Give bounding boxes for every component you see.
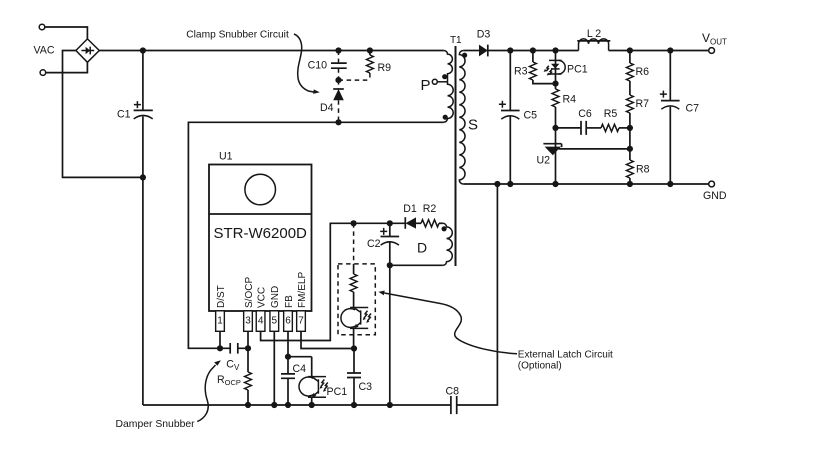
wire pin4 (VCC) [261, 223, 406, 340]
svg-text:R9: R9 [378, 62, 392, 74]
wire (dashed) [339, 73, 370, 80]
svg-text:VAC: VAC [34, 45, 55, 57]
wire (primary ground drop) [142, 177, 144, 405]
node [552, 47, 558, 53]
svg-text:(Optional): (Optional) [518, 360, 562, 371]
resistor R2 [421, 203, 443, 227]
pin 1 box [216, 311, 225, 332]
resistor R9 [367, 51, 392, 75]
phototransistor PC1 [299, 357, 347, 405]
node [387, 262, 393, 268]
node [627, 146, 633, 152]
polarity dot [442, 74, 447, 79]
diode D1 [403, 203, 421, 229]
node [627, 47, 633, 53]
terminal VAC top [39, 24, 45, 30]
wire [288, 356, 312, 358]
node [335, 47, 341, 53]
svg-text:STR-W6200D: STR-W6200D [214, 225, 308, 242]
callout arrow (clamp snubber) [294, 34, 320, 94]
callout arrow (external latch) [378, 291, 517, 354]
wire pin7 (FM/ELP) [301, 331, 354, 348]
secondary winding S [459, 51, 465, 185]
svg-text:C1: C1 [117, 108, 131, 120]
svg-text:GND: GND [270, 286, 281, 308]
wire (aux winding bottom) [390, 264, 443, 266]
capacitor C5 [499, 51, 537, 185]
node [245, 345, 251, 351]
latch resistor [350, 264, 357, 308]
svg-text:T1: T1 [450, 35, 462, 46]
svg-text:P: P [421, 77, 431, 94]
node [245, 402, 251, 408]
wire [389, 265, 391, 405]
svg-text:5: 5 [272, 316, 278, 327]
resistor R8 [627, 149, 650, 184]
svg-text:D3: D3 [477, 29, 491, 41]
inductor L2 [577, 28, 610, 51]
svg-text:Clamp Snubber Circuit: Clamp Snubber Circuit [186, 29, 289, 40]
svg-text:C6: C6 [578, 108, 592, 120]
resistor R7 [627, 81, 650, 149]
capacitor C3 [347, 349, 372, 406]
svg-text:D4: D4 [320, 102, 334, 114]
resistor R5 [601, 108, 630, 132]
svg-text:FM/ELP: FM/ELP [297, 272, 308, 308]
svg-text:C2: C2 [367, 238, 381, 250]
pin 4 box [256, 311, 265, 332]
capacitor C10 [308, 51, 347, 72]
svg-text:R8: R8 [636, 164, 650, 176]
svg-text:C7: C7 [686, 103, 700, 115]
external latch box (dashed) [338, 264, 375, 335]
polarity dot [462, 53, 467, 58]
wire pin5 (GND) [273, 331, 275, 405]
svg-text:4: 4 [258, 316, 264, 327]
resistor R4 [552, 84, 576, 128]
auxiliary winding D [443, 223, 452, 265]
node [507, 47, 513, 53]
svg-text:D: D [417, 240, 427, 256]
svg-text:GND: GND [703, 190, 727, 202]
callout arrow (damper snubber) [197, 360, 221, 421]
svg-text:External Latch Circuit: External Latch Circuit [518, 349, 613, 360]
svg-text:C4: C4 [293, 363, 307, 375]
capacitor C8 [446, 386, 460, 415]
resistor R3 [514, 51, 556, 84]
wire (primary ground rail) [143, 184, 498, 405]
node [507, 181, 513, 187]
IC U1 body [209, 151, 312, 312]
node [351, 345, 357, 351]
node [552, 81, 558, 87]
terminal GND [709, 181, 715, 187]
wire (VAC return / left rail) [63, 51, 143, 178]
node [351, 402, 357, 408]
pin 7 box [297, 311, 306, 332]
svg-text:R5: R5 [604, 108, 618, 120]
node [217, 345, 223, 351]
svg-text:VCC: VCC [256, 287, 267, 308]
svg-text:R7: R7 [636, 98, 650, 110]
polarity dot [443, 115, 448, 120]
wire [46, 62, 87, 72]
svg-text:L 2: L 2 [587, 28, 601, 40]
wire (dashed) [338, 68, 340, 80]
svg-text:7: 7 [298, 316, 304, 327]
svg-text:Damper Snubber: Damper Snubber [116, 419, 196, 430]
latch phototransistor [341, 308, 371, 349]
transformer core [455, 46, 457, 266]
wire (secondary bottom rail) [463, 183, 708, 185]
svg-text:6: 6 [285, 316, 291, 327]
resistor ROCP [217, 331, 251, 405]
node [140, 174, 146, 180]
svg-text:FB: FB [284, 295, 295, 308]
wire pin1 [219, 331, 221, 348]
capacitor CV [220, 343, 248, 372]
pin 3 box [244, 311, 253, 332]
wire (secondary top rail) [488, 50, 709, 52]
svg-text:3: 3 [245, 316, 251, 327]
node [335, 77, 341, 83]
pin 6 box [284, 311, 293, 332]
svg-text:D1: D1 [403, 203, 417, 215]
svg-text:PC1: PC1 [567, 63, 588, 75]
node [271, 402, 277, 408]
node [552, 181, 558, 187]
svg-text:R3: R3 [514, 65, 528, 77]
node [530, 47, 536, 53]
wire (rectified top rail) [99, 50, 444, 52]
node [285, 402, 291, 408]
primary winding P [444, 51, 453, 123]
P tap pointer [432, 79, 447, 84]
node [140, 47, 146, 53]
svg-text:C10: C10 [308, 60, 328, 72]
svg-text:S: S [468, 117, 478, 134]
capacitor C4 [281, 357, 306, 405]
node [367, 47, 373, 53]
svg-text:C5: C5 [524, 109, 538, 121]
svg-text:1: 1 [217, 316, 223, 327]
diode D3 [463, 29, 490, 57]
svg-text:C8: C8 [446, 386, 460, 398]
capacitor C1 [117, 51, 153, 178]
svg-text:C3: C3 [359, 381, 373, 393]
svg-text:U1: U1 [219, 151, 233, 163]
node [667, 181, 673, 187]
bridge rectifier [76, 39, 99, 62]
node [335, 119, 341, 125]
wire pin6 (FB) [287, 331, 289, 356]
pin 5 box [270, 311, 279, 332]
node [351, 220, 357, 226]
polarity dot [442, 226, 447, 231]
node [285, 354, 291, 360]
wire (dashed, to latch) [353, 223, 355, 264]
wire [45, 27, 87, 39]
shunt regulator U2 [536, 128, 561, 184]
svg-text:R6: R6 [636, 66, 650, 78]
svg-text:U2: U2 [536, 155, 550, 167]
node [387, 402, 393, 408]
svg-text:PC1: PC1 [327, 386, 348, 398]
capacitor C7 [660, 51, 699, 185]
optocoupler LED PC1 [544, 51, 588, 84]
wire (primary bottom to D/ST) [188, 122, 444, 348]
node [552, 125, 558, 131]
capacitor C6 [556, 108, 602, 135]
node [627, 125, 633, 131]
diode D4 [320, 80, 344, 122]
node [627, 181, 633, 187]
svg-text:R4: R4 [563, 93, 577, 105]
terminal VAC bottom [40, 70, 46, 76]
node [494, 181, 500, 187]
node [667, 47, 673, 53]
wire (U2 ref) [559, 148, 630, 150]
node [387, 220, 393, 226]
svg-text:R2: R2 [423, 203, 437, 215]
node [309, 402, 315, 408]
capacitor C2 [367, 223, 399, 265]
svg-text:S/OCP: S/OCP [244, 277, 255, 308]
svg-text:D/ST: D/ST [216, 285, 227, 308]
terminal VOUT [709, 48, 715, 54]
resistor R6 [627, 51, 650, 82]
